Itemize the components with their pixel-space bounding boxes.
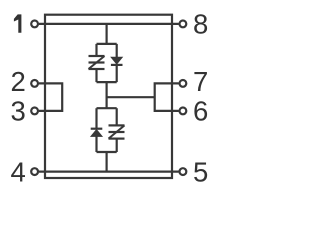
pin 5 terminal bbox=[180, 168, 187, 175]
wire: bottom cell top bar bbox=[97, 107, 117, 109]
pin 3 terminal bbox=[31, 108, 38, 115]
pin 6 terminal bbox=[180, 108, 187, 115]
zener D1 (top cell left branch) bbox=[89, 44, 105, 82]
pin 2 terminal bbox=[31, 80, 38, 87]
zener D4 (bottom cell right branch) bbox=[109, 108, 125, 152]
diode D3 (bottom cell left branch, cathode up) bbox=[91, 108, 103, 152]
wire: center lead from bottom cell to bottom rail bbox=[105, 152, 107, 172]
wire: top cell top bar bbox=[97, 43, 117, 45]
svg-text:7: 7 bbox=[193, 66, 208, 97]
pin 1 terminal bbox=[31, 21, 38, 28]
wire: pins 2-3 internal tie loop bbox=[39, 83, 62, 111]
wire: top rail pin1 to pin8 bbox=[39, 23, 179, 25]
wire: middle lead between cells bbox=[105, 82, 107, 108]
wire: top cell bottom bar bbox=[97, 81, 117, 83]
package outline bbox=[45, 15, 172, 178]
svg-text:4: 4 bbox=[11, 157, 26, 188]
pin 8 terminal bbox=[180, 21, 187, 28]
svg-text:3: 3 bbox=[11, 95, 26, 126]
pin 4 terminal bbox=[31, 168, 38, 175]
svg-text:6: 6 bbox=[193, 95, 208, 126]
diode D2 (top cell right branch, cathode down) bbox=[111, 44, 123, 82]
wire: middle node to pins 6-7 loop bbox=[107, 96, 155, 98]
wire: bottom cell bottom bar bbox=[97, 151, 117, 153]
pin 7 terminal bbox=[180, 80, 187, 87]
wire: bottom rail pin4 to pin5 bbox=[39, 171, 179, 173]
svg-text:5: 5 bbox=[193, 157, 208, 188]
svg-text:2: 2 bbox=[11, 66, 26, 97]
pin label 1 bbox=[14, 14, 22, 32]
svg-text:8: 8 bbox=[193, 9, 208, 40]
wire: pins 6-7 internal tie loop bbox=[155, 83, 179, 111]
wire: center lead from top rail to top cell bbox=[105, 24, 107, 44]
